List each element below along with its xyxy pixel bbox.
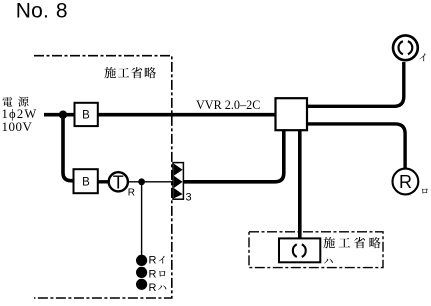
label: construction omitted (top box) — [104, 67, 116, 78]
wire: junction box to lamp receptacle i — [307, 62, 404, 106]
svg-text:VVR 2.0–2C: VVR 2.0–2C — [196, 98, 260, 112]
breaker B1 — [75, 103, 98, 126]
svg-text:R: R — [149, 255, 157, 267]
junction box — [276, 98, 308, 130]
svg-text:B: B — [82, 177, 90, 189]
ceiling rose (angular) ha — [279, 238, 320, 262]
svg-text:R: R — [399, 172, 412, 192]
wire: branch down to R terminals — [141, 182, 143, 255]
dashed boundary: left construction-omitted box — [34, 56, 172, 298]
svg-text:8: 8 — [56, 0, 68, 23]
lamp receptacle R ro — [393, 169, 419, 195]
wire: connector strip up to junction box — [184, 130, 284, 182]
svg-text:R: R — [149, 268, 157, 280]
terminal dot R-ha — [136, 279, 147, 290]
svg-text:B: B — [82, 110, 90, 122]
dashed boundary: bottom construction-omitted box — [249, 232, 383, 268]
label: construction omitted (bottom box) — [323, 237, 335, 248]
timer T (TR) — [109, 172, 128, 191]
svg-text:3: 3 — [186, 192, 192, 204]
wire: B1 to junction box VVR — [97, 113, 276, 117]
wire: timer to 3-pole boundary connector — [128, 181, 173, 183]
3-conductor boundary connector — [173, 163, 183, 200]
label i — [420, 53, 426, 61]
terminal dot R-ro — [136, 267, 147, 278]
svg-text:No.: No. — [16, 0, 49, 23]
wire: junction box down to ceiling rose ha — [298, 130, 302, 239]
svg-text:R: R — [149, 282, 157, 294]
label ro — [422, 189, 428, 194]
wire: junction box to lamp receptacle ro — [307, 124, 405, 169]
label ha — [324, 259, 333, 264]
breaker B2 — [74, 169, 98, 193]
wire: junction down and to breaker B2 — [63, 115, 74, 181]
wire: source feed to breaker B1 — [44, 113, 75, 117]
node: branch to remote dots — [138, 178, 145, 185]
ceiling rose (round) i — [393, 35, 418, 60]
svg-text:R: R — [128, 187, 135, 198]
wire: B2 to timer T — [98, 180, 109, 183]
node: source junction — [59, 111, 67, 119]
terminal dot R-i — [136, 255, 147, 266]
label: power source 電源 1phi2W 100V — [2, 97, 12, 107]
svg-text:T: T — [113, 172, 124, 192]
svg-text:100V: 100V — [2, 119, 33, 134]
